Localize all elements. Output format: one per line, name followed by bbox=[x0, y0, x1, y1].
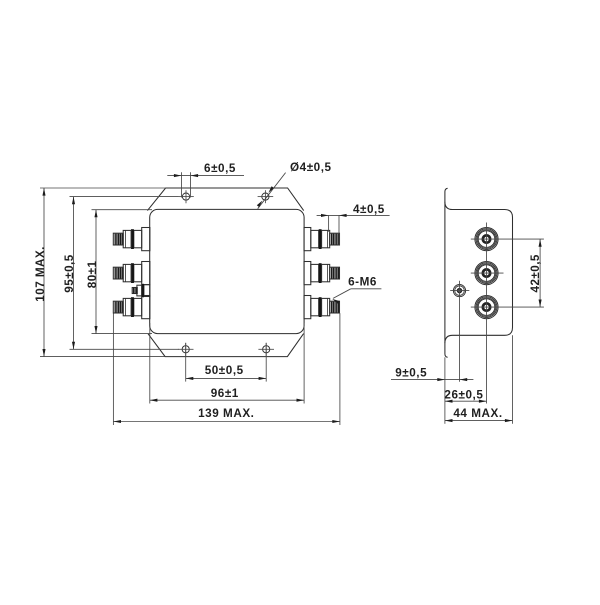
terminal centerline vertical (side view) bbox=[486, 223, 488, 404]
ground stud crosshair bbox=[450, 290, 469, 292]
mounting hole bottom-right bbox=[263, 346, 270, 353]
svg-text:80±1: 80±1 bbox=[86, 260, 99, 288]
svg-text:139 MAX.: 139 MAX. bbox=[198, 407, 254, 420]
svg-text:9±0,5: 9±0,5 bbox=[395, 366, 427, 379]
svg-text:26±0,5: 26±0,5 bbox=[444, 388, 483, 401]
ground stud (front view, left side) bbox=[132, 284, 150, 298]
svg-text:107 MAX.: 107 MAX. bbox=[34, 246, 47, 302]
terminal T3 crosshair horizontal / 42 bottom extension bbox=[471, 306, 544, 308]
terminal stud R1 (right, load side) bbox=[304, 228, 340, 251]
mounting hole top-right (Ø4±0.5) bbox=[262, 193, 269, 200]
dimension 26±0.5 (flange to terminal center) bbox=[445, 400, 487, 402]
svg-text:96±1: 96±1 bbox=[211, 387, 239, 400]
dimension 95±0.5 (hole span vertical) bbox=[70, 196, 179, 198]
svg-text:6±0,5: 6±0,5 bbox=[204, 162, 236, 175]
svg-text:4±0,5: 4±0,5 bbox=[353, 203, 385, 216]
terminal T1 crosshair horizontal / 42 top extension bbox=[471, 238, 544, 240]
ground stud end view (side) bbox=[453, 285, 465, 297]
terminal end view T3 (side) bbox=[475, 296, 498, 319]
dimension 44 MAX. (overall depth) bbox=[445, 420, 513, 422]
front view: top mounting flange bbox=[147, 188, 303, 211]
svg-text:42±0,5: 42±0,5 bbox=[529, 254, 542, 292]
side view: body outline bbox=[445, 202, 513, 343]
terminal stud L3 (left) bbox=[113, 296, 150, 319]
terminal end view T1 (side) bbox=[475, 228, 498, 251]
svg-text:Ø4±0,5: Ø4±0,5 bbox=[290, 161, 332, 174]
svg-text:95±0,5: 95±0,5 bbox=[63, 254, 76, 292]
svg-text:44 MAX.: 44 MAX. bbox=[453, 407, 502, 420]
dimension 42±0.5 (terminal span, side) bbox=[539, 239, 541, 307]
svg-text:50±0,5: 50±0,5 bbox=[205, 364, 244, 377]
terminal stud L2 (left) bbox=[113, 262, 150, 285]
mounting hole bottom-left bbox=[182, 346, 189, 353]
svg-text:6-M6: 6-M6 bbox=[348, 275, 377, 288]
front view: filter body outline bbox=[150, 209, 304, 333]
dimension 139 MAX. (overall width incl. studs) bbox=[112, 314, 114, 426]
front view: bottom mounting flange bbox=[148, 334, 304, 357]
terminal T2 crosshair horizontal bbox=[471, 272, 504, 274]
dimension 6±0.5 (slot width, top-left hole) bbox=[181, 172, 183, 197]
dimension 107 MAX. (overall height, left) bbox=[40, 187, 166, 189]
flange extension line down (side) bbox=[444, 357, 446, 424]
dimension 50±0.5 (bottom hole span) bbox=[185, 343, 187, 382]
side view: mounting flange edge-on bbox=[445, 188, 448, 357]
dimension 80±1 (body height) bbox=[92, 209, 153, 211]
dimension 9±0.5 (flange to ground stud) bbox=[391, 379, 473, 381]
terminal end view T2 (side) bbox=[475, 262, 498, 285]
dimension 96±1 (body width) bbox=[149, 323, 151, 404]
terminal stud R3 (right) bbox=[304, 296, 340, 319]
terminal stud R2 (right) bbox=[304, 262, 340, 285]
mounting hole top-left (slot 6±0.5) bbox=[182, 193, 189, 200]
dimension 4±0.5 (thread length, right side) bbox=[328, 215, 330, 231]
dimension Ø4±0.5 leader (top-right hole) bbox=[258, 173, 286, 209]
terminal stud L1 (left, line side) bbox=[113, 228, 150, 251]
body right edge extension down (side) bbox=[512, 335, 514, 424]
